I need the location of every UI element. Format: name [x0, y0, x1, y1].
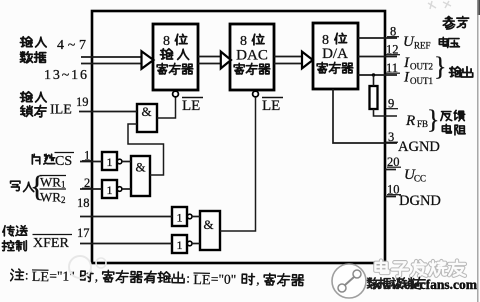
svg-text:OUT2: OUT2 — [410, 62, 433, 72]
svg-text:,: , — [95, 269, 99, 284]
watermark text 电子发烧友 — [375, 261, 388, 273]
svg-text:,: , — [256, 272, 260, 287]
wire ILE pin19 to G1 — [79, 111, 137, 113]
data input bus arrowhead — [142, 51, 154, 69]
faint corner marks — [428, 1, 436, 9]
wire WR1 pin2 to N2 — [80, 188, 102, 190]
svg-text:D/A: D/A — [322, 46, 348, 62]
label: input data 输入/数据 — [20, 37, 32, 47]
AND gate G1 (ILE gating) — [137, 104, 157, 132]
inverter N2 (WR1 input) — [102, 180, 117, 198]
pin 20 stub — [385, 169, 396, 171]
svg-text:DAC: DAC — [236, 48, 268, 64]
svg-text::: : — [25, 267, 29, 282]
svg-text:&: & — [203, 217, 213, 232]
svg-text:OUT1: OUT1 — [410, 76, 433, 86]
wire resistor bottom to pin 9 — [374, 109, 398, 116]
latch bubble under DAC register — [253, 91, 259, 97]
inverter N1 (CS input) — [102, 152, 117, 170]
wire D/A block to pin 12 IOUT2 — [358, 56, 397, 58]
decorative faint marks — [69, 256, 91, 278]
wire N4 to G3 — [192, 243, 200, 245]
bus wire pair register1 to register2 — [198, 57, 223, 64]
svg-text:18: 18 — [77, 196, 90, 210]
svg-text:AGND: AGND — [398, 139, 440, 155]
junction node on IOUT1 wire — [372, 73, 375, 76]
label: chip select 片选 CS-bar — [32, 154, 39, 164]
svg-text:1: 1 — [177, 238, 183, 252]
wire AGND from D/A block bottom to pin 3 — [333, 89, 397, 143]
wire WR2 pin18 to N3 — [80, 216, 172, 218]
inverter N4 (XFER input) — [172, 235, 187, 253]
AND gate G2 (CS/WR1) — [131, 156, 150, 196]
svg-text:CC: CC — [414, 174, 426, 184]
svg-text:REF: REF — [414, 41, 431, 51]
wire D/A block to pin 8 UREF — [358, 37, 397, 39]
bus wire pair register2 to D/A block — [274, 57, 304, 64]
register block U2: 8-bit DAC register — [230, 24, 274, 90]
svg-text:2: 2 — [61, 195, 66, 205]
label: write 写入 with brace — [11, 181, 20, 191]
svg-text:1: 1 — [107, 155, 113, 169]
feedback resistor RFB — [370, 86, 378, 109]
svg-text:CS: CS — [55, 154, 72, 169]
AND gate G3 (WR2/XFER) — [200, 211, 220, 250]
note tail: data latched — [367, 278, 379, 289]
wire D/A block to pin 11 IOUT1 — [358, 74, 397, 76]
svg-text:LE: LE — [182, 98, 200, 114]
block U3: 8-bit D/A converter register — [313, 23, 358, 89]
svg-text:WR: WR — [40, 190, 61, 205]
svg-text:="0": ="0" — [211, 271, 237, 286]
svg-text:LE: LE — [193, 273, 210, 288]
svg-text:1: 1 — [177, 211, 183, 225]
svg-text:I: I — [403, 70, 410, 86]
wire N1 to G2 — [122, 161, 131, 163]
arrowhead into D/A block — [302, 52, 313, 69]
svg-text:&: & — [141, 104, 151, 119]
svg-text:ILE: ILE — [50, 103, 72, 118]
svg-text:&: & — [135, 160, 145, 175]
wire G1 output to LE bubble of input register — [157, 97, 176, 118]
inverter N3 (WR2 input) — [172, 207, 187, 226]
svg-text:1: 1 — [107, 183, 113, 197]
svg-text:13~16: 13~16 — [44, 68, 87, 83]
svg-text:}: } — [427, 105, 439, 134]
svg-text:LE: LE — [32, 270, 49, 285]
svg-text:19: 19 — [76, 95, 89, 109]
svg-text::: : — [186, 270, 190, 285]
wire CS pin1 to N1 — [80, 161, 102, 163]
right edge artifacts — [477, 0, 480, 15]
svg-text:8: 8 — [163, 34, 170, 49]
svg-text:DGND: DGND — [399, 193, 441, 209]
wire XFER pin17 to N4 — [80, 243, 172, 245]
svg-text:LE: LE — [262, 98, 280, 114]
svg-text:}: } — [434, 52, 446, 81]
label: transfer control 传送/控制 — [3, 226, 14, 236]
note text line — [11, 267, 304, 290]
outer chip boundary box — [92, 11, 385, 263]
latch bubble under input register — [173, 91, 179, 97]
pin 10 stub — [385, 196, 396, 198]
wire N3 to G3 — [192, 216, 200, 218]
wire G3 output up to DAC register LE bubble — [220, 97, 256, 231]
svg-text:XFER: XFER — [33, 236, 69, 251]
arrowhead into DAC register — [221, 52, 231, 69]
label: input latch 输入/锁存 — [20, 92, 32, 102]
watermark logo circle — [332, 264, 366, 298]
svg-text:4~7: 4~7 — [57, 38, 86, 53]
wire G2 output feedback up to G1 second input — [128, 124, 164, 175]
svg-text:WR: WR — [40, 175, 61, 190]
svg-text:17: 17 — [77, 226, 90, 240]
svg-text:="1": ="1" — [49, 268, 75, 283]
wire resistor top tap — [373, 75, 375, 86]
wire N2 to G2 — [122, 188, 131, 190]
register block U1: 8-bit input register — [153, 24, 198, 90]
svg-text:R: R — [405, 113, 415, 129]
data input bus wire pair — [81, 57, 142, 64]
svg-text:1: 1 — [61, 180, 66, 190]
